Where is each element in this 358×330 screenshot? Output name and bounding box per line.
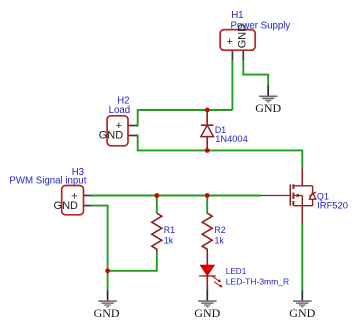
svg-text:Power Supply: Power Supply bbox=[231, 20, 291, 31]
wire gate rail (H3 plus to Q1 gate) bbox=[91, 195, 262, 197]
svg-text:IRF520: IRF520 bbox=[317, 200, 348, 211]
svg-text:GND: GND bbox=[99, 130, 124, 142]
wire bottom rail (H2 gnd to Q1 drain) bbox=[136, 136, 302, 169]
connector H3 bbox=[54, 186, 91, 215]
svg-text:1N4004: 1N4004 bbox=[215, 134, 248, 144]
svg-text:1k: 1k bbox=[164, 235, 174, 245]
svg-text:+: + bbox=[226, 36, 232, 48]
LED LED1 bbox=[199, 252, 222, 292]
svg-text:R2: R2 bbox=[214, 225, 225, 235]
svg-text:R1: R1 bbox=[164, 225, 175, 235]
svg-text:GND: GND bbox=[255, 101, 281, 115]
svg-text:GND: GND bbox=[289, 306, 315, 320]
connector H2 bbox=[99, 116, 137, 146]
node junction D1 bottom bbox=[205, 148, 210, 153]
wire R1 bottom to gnd wire bbox=[108, 252, 157, 271]
node junction R1 top bbox=[154, 193, 159, 198]
wire H3 gnd down bbox=[91, 206, 108, 291]
node junction gnd net bbox=[105, 268, 110, 273]
wire H1 plus vertical bbox=[231, 60, 233, 111]
connector H1 bbox=[220, 24, 255, 60]
svg-text:1k: 1k bbox=[215, 235, 225, 245]
wire top rail (H2 plus to H1 plus) bbox=[136, 110, 232, 126]
svg-text:GND: GND bbox=[194, 306, 220, 320]
wire Q1 source to ground bbox=[301, 223, 303, 292]
svg-text:Load: Load bbox=[109, 105, 131, 116]
svg-text:GND: GND bbox=[94, 306, 120, 320]
ground (Q1 source) bbox=[289, 291, 315, 321]
node junction D1 top bbox=[205, 108, 210, 113]
diode D1 bbox=[201, 110, 214, 150]
svg-text:PWM Signal input: PWM Signal input bbox=[9, 175, 86, 186]
resistor R1 bbox=[152, 213, 162, 252]
node junction R2 top bbox=[205, 193, 210, 198]
ground (power supply) bbox=[255, 85, 281, 115]
ground (LED) bbox=[194, 291, 220, 321]
ground (pwm/R1 net) bbox=[94, 291, 120, 321]
wire R1 top stub bbox=[156, 196, 158, 214]
wire H1 gnd to ground bbox=[243, 60, 268, 87]
wire R2 top stub bbox=[206, 196, 208, 214]
svg-text:LED-TH-3mm_R: LED-TH-3mm_R bbox=[226, 277, 289, 287]
transistor Q1 bbox=[262, 168, 316, 223]
resistor R2 bbox=[202, 213, 212, 252]
svg-text:GND: GND bbox=[54, 200, 79, 212]
svg-text:LED1: LED1 bbox=[226, 267, 247, 276]
